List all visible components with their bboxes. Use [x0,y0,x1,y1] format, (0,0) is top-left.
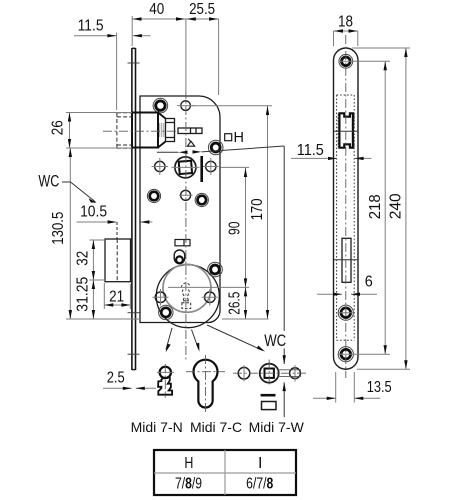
svg-text:I: I [258,455,262,472]
spindle open square [262,402,277,410]
edge ring post lower (case right edge) [208,262,223,277]
circle left of follower [152,158,169,175]
obround part above cylinder [174,250,185,264]
svg-text:2.5: 2.5 [107,370,125,387]
label WC (left) with leader [38,172,96,203]
svg-text:6/7/8: 6/7/8 [246,475,273,493]
cylinder fixing circle left [153,289,169,306]
svg-text:Midi 7-C: Midi 7-C [190,419,242,435]
cylinder horizontal centerline / extension [168,286,249,288]
lock case behind faceplate (dotted) [337,95,355,340]
svg-text:32: 32 [75,251,92,266]
svg-text:26.5: 26.5 [227,292,244,315]
table H / I [154,450,296,495]
variant labels [131,419,183,435]
spindle cap thick line [261,394,276,397]
svg-text:40: 40 [149,1,164,18]
dimension 11.5 (latch width, right view) [291,142,372,160]
lock case outline (side view) [140,96,220,323]
dimension 10.5 [77,204,153,240]
shared extension line y=319 [66,318,269,320]
svg-text:Midi 7-W: Midi 7-W [249,419,305,435]
svg-text:11.5: 11.5 [297,142,324,159]
cylinder hole boss (big circle) [156,265,219,328]
svg-text:11.5: 11.5 [78,17,104,34]
svg-text:218: 218 [367,194,384,219]
dimension 240 (faceplate length) [352,48,410,369]
vertical bar right of follower [200,156,203,182]
dimension 2.5 (faceplate thickness) [103,370,156,391]
cylinder fixing circle right [202,289,218,306]
WC vertical leader line with arrows [283,146,286,417]
square follower (spindle hub) [172,157,200,178]
latch bolt front view [334,113,359,147]
svg-text:H: H [184,455,193,472]
svg-text:170: 170 [249,198,266,220]
rivet post top-left [153,98,168,113]
dimension 18 (faceplate width) [334,13,359,46]
keyhole icon (Midi 7-N) [157,364,174,398]
rivet post mid-right [195,193,208,206]
faceplate middle screw [338,305,355,320]
rivet post bottom-left [159,305,173,319]
leader to euro cylinder icon [192,330,200,352]
faceplate screw position ticks [128,63,140,354]
svg-text:18: 18 [338,13,353,30]
leader to keyhole icon [166,328,172,352]
faceplate (side view, edge) [132,48,136,370]
slotted stop piece right of latch [178,128,202,134]
dimension 6 (slot width) [317,273,377,296]
faceplate vertical centerline [345,35,347,378]
dimension 31.25 [75,277,95,319]
circle below follower [179,190,193,200]
dimension 25.5 (top) [186,1,219,95]
dimension 21 (deadbolt depth) [104,283,130,309]
svg-text:31.25: 31.25 [75,277,92,312]
latch horizontal centerline [103,130,178,132]
svg-text:WC: WC [38,172,59,191]
rivet post mid-left [147,189,160,202]
svg-text:Midi 7-N: Midi 7-N [131,419,183,435]
WC spindle icon (Midi 7-W) [233,360,306,388]
svg-text:7/8/9: 7/8/9 [175,475,202,493]
adjusting slot (front view) [334,238,358,282]
dimension 170 [192,106,272,319]
svg-text:H: H [234,130,244,146]
faceplate front view outline (stadium) [334,48,359,369]
small triangle mark above follower [187,139,194,147]
latch bolt extended position (hidden/dashed) [117,113,132,148]
dimension 13.5 (case width) [313,372,392,403]
case vertical centerline [185,90,187,360]
deadbolt (side view) [105,239,131,282]
WC label (bottom right) [264,331,286,350]
dimension 90 (follower to cylinder) [221,167,250,287]
svg-text:130.5: 130.5 [50,212,67,245]
circle right of follower [203,158,219,175]
euro profile hidden outline (dashed) [181,283,190,308]
svg-text:10.5: 10.5 [80,204,107,221]
dimension 32 (deadbolt height) [75,240,105,280]
dimension 130.5 [50,148,72,319]
svg-text:240: 240 [388,193,405,219]
svg-text:6: 6 [365,273,373,290]
label square-H with leader to follower [157,130,284,154]
svg-text:13.5: 13.5 [367,379,392,396]
leader to WC icon [207,325,265,352]
svg-text:26: 26 [50,120,67,135]
dimension 218 (screw centers) [353,61,390,354]
faceplate bottom screw [338,347,355,362]
svg-text:WC: WC [264,331,286,350]
euro cylinder icon (Midi 7-C) [186,355,225,413]
dimension 11.5 (top left) [74,17,151,110]
cylinder rosette circle (gray) [163,264,211,312]
top hole on centerline [177,101,195,111]
small rect part above cylinder [175,240,190,246]
svg-text:25.5: 25.5 [189,1,215,18]
dimension 26.5 [227,287,248,319]
svg-text:21: 21 [109,289,124,306]
svg-text:90: 90 [227,221,244,235]
latch bolt (solid, retracted) [132,113,175,148]
edge ring post upper (case right edge) [208,140,223,155]
dimension 26 (latch height) [50,113,133,149]
faceplate top screw [339,54,354,68]
dimension 40 (top) [132,1,218,46]
